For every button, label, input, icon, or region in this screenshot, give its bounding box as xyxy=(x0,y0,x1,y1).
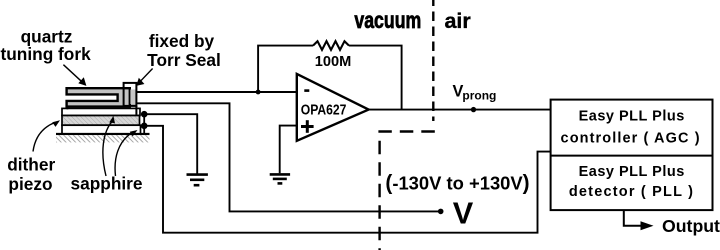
svg-text:vacuum: vacuum xyxy=(354,8,421,34)
svg-text:OPA627: OPA627 xyxy=(301,101,347,118)
svg-text:Torr Seal: Torr Seal xyxy=(147,50,221,70)
svg-text:controller ( AGC ): controller ( AGC ) xyxy=(561,131,701,147)
svg-text:prong: prong xyxy=(462,89,496,103)
svg-text:tuning fork: tuning fork xyxy=(0,44,91,64)
svg-text:Easy PLL Plus: Easy PLL Plus xyxy=(579,108,685,124)
svg-text:fixed by: fixed by xyxy=(149,31,215,51)
svg-text:air: air xyxy=(444,9,471,33)
svg-text:Easy PLL Plus: Easy PLL Plus xyxy=(579,164,685,180)
svg-text:100M: 100M xyxy=(315,54,352,70)
svg-text:V: V xyxy=(453,196,474,231)
svg-text:detector ( PLL ): detector ( PLL ) xyxy=(569,184,694,200)
svg-text:sapphire: sapphire xyxy=(70,174,142,194)
svg-text:dither: dither xyxy=(7,155,55,175)
svg-text:Output: Output xyxy=(662,216,720,236)
svg-text:piezo: piezo xyxy=(8,174,52,194)
svg-text:(-130V to +130V): (-130V to +130V) xyxy=(385,172,529,195)
